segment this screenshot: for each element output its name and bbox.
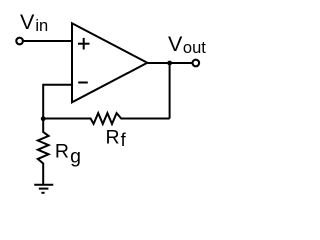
svg-text:out: out bbox=[183, 39, 206, 57]
svg-text:V: V bbox=[168, 32, 183, 56]
svg-text:V: V bbox=[20, 10, 35, 34]
svg-text:in: in bbox=[35, 17, 48, 35]
svg-text:R: R bbox=[106, 126, 120, 148]
svg-text:g: g bbox=[70, 145, 81, 167]
svg-text:R: R bbox=[55, 141, 69, 163]
svg-text:f: f bbox=[121, 129, 127, 150]
